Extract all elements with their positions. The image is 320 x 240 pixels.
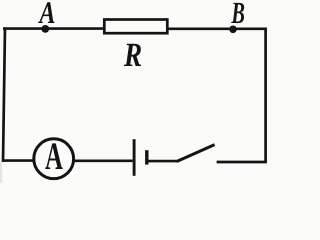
wire left (vertical) xyxy=(3,27,5,162)
ammeter xyxy=(34,135,74,179)
label R (value label) xyxy=(123,37,142,74)
wire bottom-left (corner to ammeter) xyxy=(3,159,35,162)
wire top-left (node A to resistor) xyxy=(3,27,104,30)
svg-text:A: A xyxy=(38,0,56,30)
wire top-right (resistor to node B) xyxy=(168,27,267,30)
svg-text:R: R xyxy=(123,37,142,74)
resistor R xyxy=(104,20,167,34)
wire (switch contact to bottom-right corner) xyxy=(217,161,267,164)
svg-text:B: B xyxy=(231,0,245,30)
wire (battery to switch pivot) xyxy=(149,160,178,163)
wire right (vertical) xyxy=(264,28,267,163)
node B (junction dot) xyxy=(229,26,237,34)
node A (junction dot) xyxy=(41,25,49,33)
svg-text:A: A xyxy=(45,135,63,178)
wire (ammeter to battery) xyxy=(75,160,133,163)
switch blade (open) xyxy=(177,145,215,162)
label A (node name) xyxy=(38,0,56,30)
battery cell: short plate (-) xyxy=(145,150,148,164)
battery cell: long plate (+) xyxy=(133,139,136,176)
label B (node name) xyxy=(231,0,245,30)
